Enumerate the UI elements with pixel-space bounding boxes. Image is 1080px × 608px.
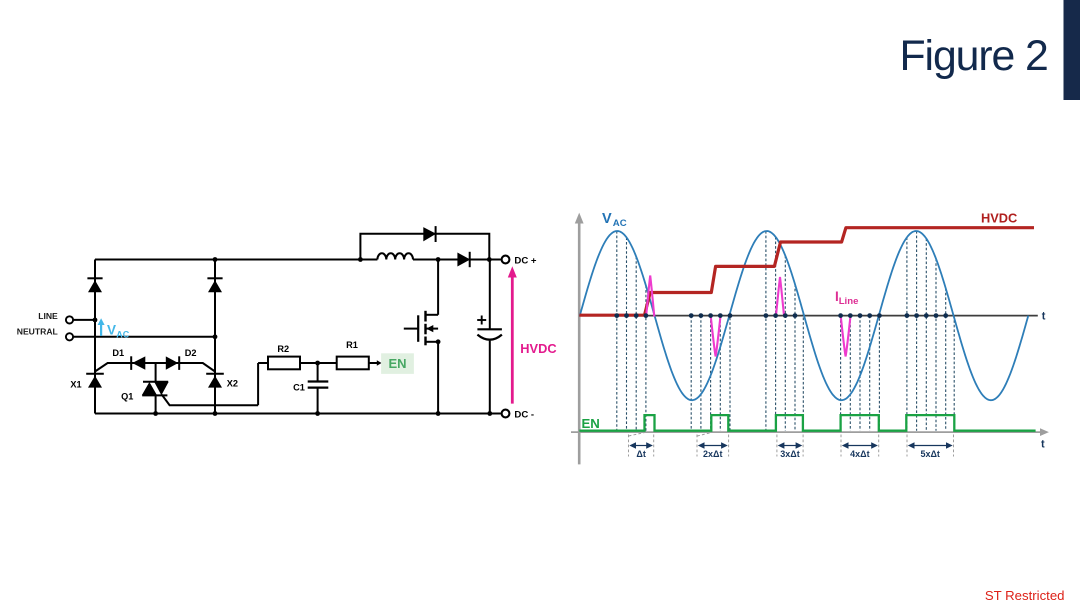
svg-text:EN: EN xyxy=(582,416,600,431)
svg-text:EN: EN xyxy=(388,356,406,371)
svg-text:Q1: Q1 xyxy=(121,391,133,401)
svg-text:DC +: DC + xyxy=(514,256,537,267)
svg-text:t: t xyxy=(1042,310,1046,322)
svg-text:C1: C1 xyxy=(293,382,305,392)
svg-text:R1: R1 xyxy=(346,340,358,350)
svg-text:HVDC: HVDC xyxy=(981,210,1017,225)
svg-text:ST Restricted: ST Restricted xyxy=(985,588,1065,603)
svg-text:D1: D1 xyxy=(112,348,124,358)
svg-text:V: V xyxy=(602,211,612,227)
svg-text:R2: R2 xyxy=(277,344,289,354)
svg-text:t: t xyxy=(1041,438,1045,450)
svg-text:Figure 2: Figure 2 xyxy=(900,32,1048,80)
svg-text:LINE: LINE xyxy=(38,311,58,321)
svg-text:AC: AC xyxy=(613,218,627,229)
svg-text:V: V xyxy=(107,322,116,337)
svg-text:4xΔt: 4xΔt xyxy=(850,449,869,459)
svg-text:X1: X1 xyxy=(70,379,81,389)
svg-text:Line: Line xyxy=(839,296,859,307)
svg-text:3xΔt: 3xΔt xyxy=(780,449,799,459)
svg-text:NEUTRAL: NEUTRAL xyxy=(17,327,58,337)
svg-text:X2: X2 xyxy=(227,379,238,389)
svg-text:AC: AC xyxy=(116,329,129,339)
svg-text:2xΔt: 2xΔt xyxy=(703,449,722,459)
svg-text:D2: D2 xyxy=(185,348,197,358)
svg-text:Δt: Δt xyxy=(636,449,645,459)
svg-text:5xΔt: 5xΔt xyxy=(920,449,939,459)
svg-text:HVDC: HVDC xyxy=(520,341,556,356)
svg-text:DC -: DC - xyxy=(514,409,534,420)
